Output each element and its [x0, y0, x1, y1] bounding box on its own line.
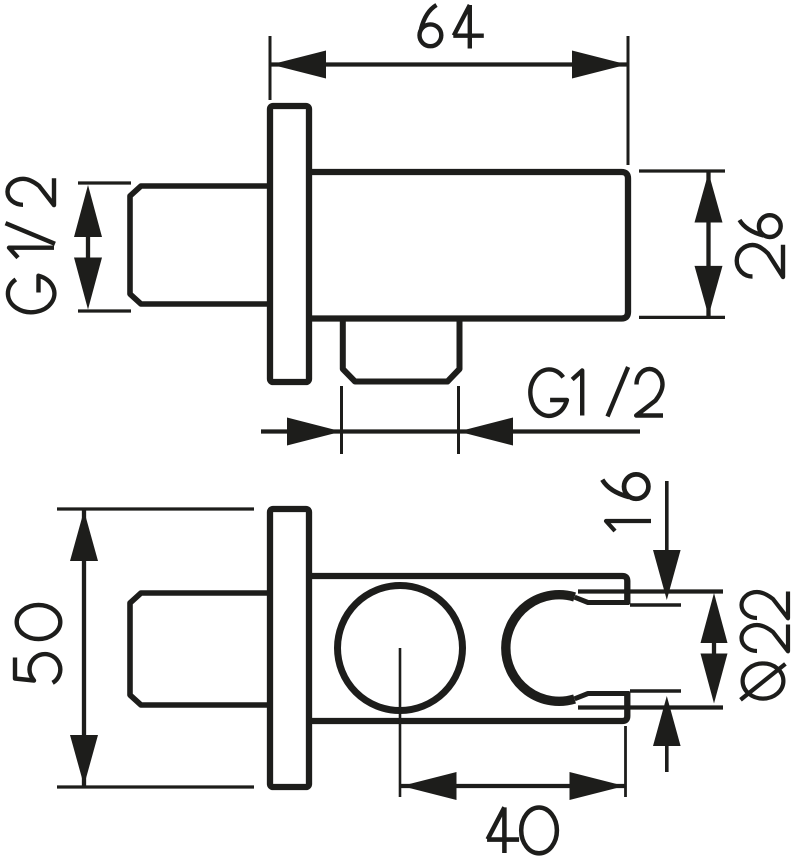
dim 50: upper extension line: [57, 507, 254, 510]
dim G1/2 left: upper arrowhead: [74, 185, 102, 237]
mounting hole circle: [338, 586, 463, 711]
holder lip / diameter extension bottom: [578, 705, 723, 709]
dim 64: right extension line: [627, 36, 630, 165]
dim 26: dimension line: [706, 171, 710, 317]
inlet nipple (bottom view): [130, 593, 270, 705]
holder lip / diameter extension top: [578, 589, 723, 593]
dim 16: lower line segment: [665, 744, 669, 772]
outlet nipple (top view): [343, 319, 460, 382]
holder C-arc: [506, 595, 575, 702]
inlet nipple G1/2 (top view): [130, 186, 270, 304]
dim 64: dimension line: [270, 62, 628, 66]
dim 16: lower tick: [630, 689, 681, 692]
dim 26: lower tick: [639, 316, 725, 319]
dim G1/2 left: lower arrowhead: [74, 258, 102, 310]
dim G1/2 left: shaft: [86, 237, 90, 258]
dim G1/2 left: upper tick: [78, 181, 131, 184]
body (top view): [309, 172, 628, 319]
slot bottom wall: [575, 694, 630, 699]
dim 64: right arrowhead: [572, 51, 627, 79]
dim 50: lower arrowhead: [70, 735, 98, 786]
dim G1/2 bottom: dimension line: [261, 429, 640, 433]
centerline of circle: [399, 648, 402, 797]
dim 16: upper line segment: [665, 481, 669, 552]
dim G1/2 left: lower tick: [78, 309, 131, 312]
dim 50: text "50" rotated: [15, 605, 60, 683]
dim 16: lower arrowhead pointing up: [653, 696, 681, 746]
dim 40: right arrowhead: [570, 772, 625, 800]
dim 50: upper arrowhead: [70, 511, 98, 562]
wall plate (bottom view): [270, 509, 309, 787]
dim diameter 22: lower arrowhead: [701, 654, 728, 704]
dim 16: upper arrowhead pointing down: [653, 550, 681, 600]
dim 16: upper tick: [630, 603, 681, 606]
dim 64: text "64": [420, 5, 484, 49]
wall plate (top view): [270, 106, 309, 382]
dim 40: text "40": [487, 807, 557, 853]
body (bottom view) with slot notch on right: [309, 576, 627, 721]
slot top wall: [575, 597, 630, 602]
dim diameter 22: upper arrowhead: [701, 593, 728, 643]
dim 16: text "16" rotated: [602, 474, 651, 531]
dim 50: dimension line: [82, 509, 86, 787]
dim G1/2 bottom: right arrowhead pointing left: [459, 418, 514, 446]
dim G1/2 bottom: right extension line: [457, 386, 460, 454]
dim G1/2 bottom: left extension line: [340, 386, 343, 454]
dim G1/2 left: text rotated: [6, 178, 56, 312]
dim diameter 22: text rotated: [741, 592, 789, 700]
dim 26: text "26" rotated: [737, 215, 783, 277]
dim diameter 22: shaft: [712, 643, 716, 654]
dim 26: lower arrowhead: [695, 266, 723, 316]
dim 40: left arrowhead: [402, 772, 457, 800]
dim 64: left extension line: [269, 36, 272, 100]
dim 50: lower extension line: [57, 785, 254, 788]
dim 26: upper arrowhead: [695, 173, 723, 223]
dim 26: upper tick: [639, 169, 725, 172]
dim 64: left arrowhead: [271, 51, 326, 79]
dim G1/2 bottom: left arrowhead pointing right: [287, 418, 342, 446]
dim G1/2 bottom: text: [530, 367, 663, 417]
dim 40: right extension line: [624, 726, 627, 797]
dim 40: dimension line: [401, 784, 626, 788]
